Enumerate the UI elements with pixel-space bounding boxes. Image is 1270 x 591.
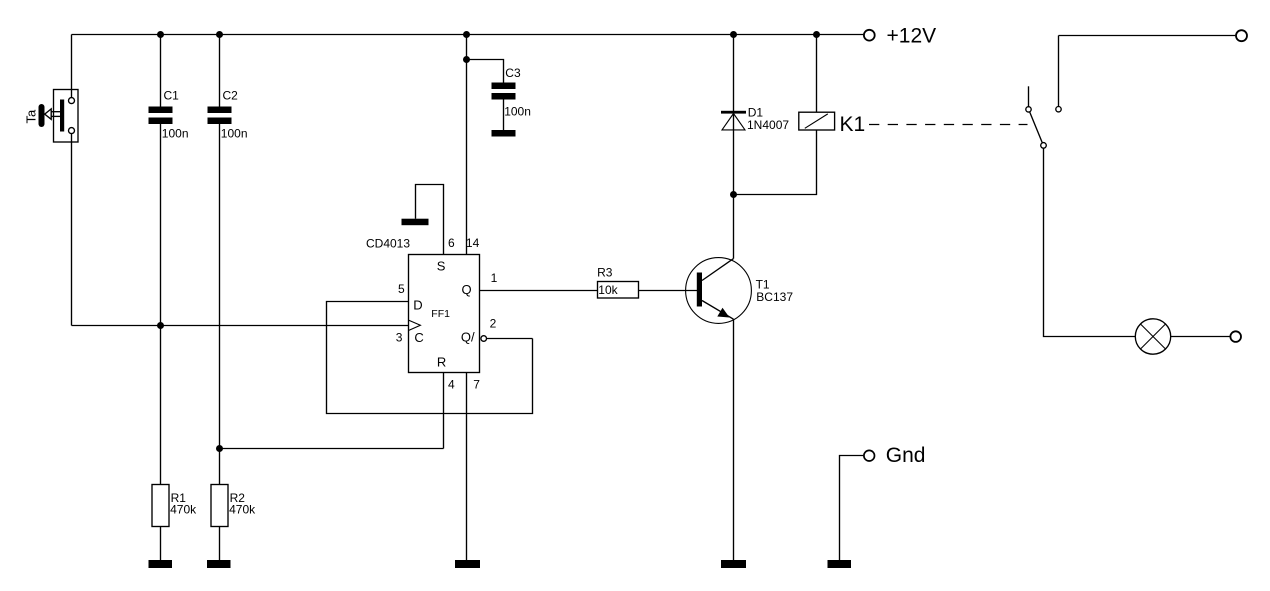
wire reset pin4 vertical (443, 373, 445, 449)
relay coil K1 (799, 112, 835, 130)
relay contact NO (1056, 107, 1061, 112)
svg-text:10k: 10k (598, 283, 618, 297)
wire C1 top (160, 35, 162, 107)
wire D1 top (733, 35, 735, 195)
svg-text:R: R (437, 355, 446, 370)
ground Gnd (828, 560, 852, 568)
lamp (1135, 319, 1170, 354)
transistor T1 (686, 258, 752, 324)
svg-text:+12V: +12V (887, 25, 937, 48)
pin2 bubble (481, 336, 487, 342)
resistor R3 (598, 282, 639, 299)
wire +12V top rail (72, 34, 864, 36)
relay contact NC stub (1028, 86, 1030, 106)
svg-text:K1: K1 (840, 113, 866, 136)
svg-text:CD4013: CD4013 (366, 236, 410, 250)
wire D feedback (327, 302, 533, 414)
wire reset pin4 horizontal (220, 448, 444, 450)
wire collector (733, 195, 735, 259)
relay contact NO wire (1058, 36, 1060, 107)
pushbutton Ta (39, 90, 79, 143)
svg-text:6: 6 (448, 236, 455, 250)
junction C2 rail (216, 31, 223, 38)
svg-text:Q: Q (462, 282, 472, 297)
terminal lamp right (1230, 331, 1241, 342)
wire lamp to terminal (1171, 336, 1230, 338)
svg-text:C3: C3 (505, 66, 521, 80)
svg-text:D: D (413, 297, 422, 312)
terminal top right (1236, 30, 1247, 41)
terminal +12V (864, 30, 875, 41)
svg-text:BC137: BC137 (756, 290, 793, 304)
wire C2 to R2 (219, 124, 221, 485)
junction C1 rail (157, 31, 164, 38)
wire emitter (733, 319, 735, 560)
svg-text:5: 5 (398, 282, 405, 296)
wire C2 top (219, 35, 221, 107)
wire Qbar to feedback (487, 338, 533, 340)
svg-text:7: 7 (473, 377, 480, 391)
resistor R2 (211, 485, 228, 527)
junction rail D1 (730, 31, 737, 38)
svg-text:1N4007: 1N4007 (747, 118, 789, 132)
svg-text:3: 3 (396, 331, 403, 345)
switch common contact (1041, 143, 1047, 149)
svg-text:470k: 470k (170, 503, 197, 517)
ground R2 (207, 560, 231, 568)
ground C3 (492, 130, 516, 137)
svg-text:100n: 100n (221, 126, 248, 140)
wire Q to R3 (480, 290, 598, 292)
wire Gnd (840, 456, 864, 561)
ground pin7 (455, 560, 480, 568)
wire relay bottom (734, 130, 817, 195)
relay contact NC (1026, 107, 1031, 112)
wire Ta top segment (71, 35, 73, 98)
wire R1 to ground (160, 527, 162, 561)
svg-text:S: S (437, 259, 446, 274)
diode D1 (721, 111, 746, 130)
wire switch top to terminal (1059, 35, 1236, 37)
junction clock C1 (157, 322, 164, 329)
clock triangle (409, 320, 421, 330)
wire C1 to R1 (160, 124, 162, 485)
capacitor C2 (208, 107, 232, 125)
svg-text:Ta: Ta (24, 109, 39, 124)
svg-text:1: 1 (491, 271, 498, 285)
svg-text:C1: C1 (164, 88, 180, 102)
svg-text:FF1: FF1 (431, 308, 450, 320)
ground pin6 (402, 219, 429, 226)
resistor R1 (152, 485, 169, 527)
junction C3 branch (463, 56, 470, 63)
terminal Gnd (864, 450, 875, 461)
ground R1 (149, 560, 173, 568)
svg-text:Gnd: Gnd (886, 444, 926, 467)
capacitor C1 (149, 107, 173, 125)
wire pin7 to ground (466, 373, 468, 561)
svg-text:100n: 100n (162, 126, 189, 140)
ground emitter (721, 560, 746, 568)
svg-text:Q/: Q/ (461, 329, 475, 344)
svg-text:14: 14 (466, 236, 480, 250)
switch arm (1030, 112, 1043, 143)
dashed link K1 to switch (869, 124, 1028, 126)
wire Ta bottom segment (71, 134, 73, 326)
svg-text:4: 4 (448, 377, 455, 391)
svg-text:2: 2 (490, 317, 497, 331)
junction collector relay (730, 191, 737, 198)
wire pin6 (416, 185, 444, 255)
wire R3 to base (639, 290, 698, 292)
svg-text:100n: 100n (504, 104, 531, 118)
svg-text:470k: 470k (229, 503, 256, 517)
junction reset R2 (216, 445, 223, 452)
svg-text:C: C (414, 330, 423, 345)
svg-text:C2: C2 (223, 88, 239, 102)
wire R2 to ground (219, 527, 221, 561)
wire pin14 vertical (466, 35, 468, 255)
wire common to lamp (1044, 148, 1136, 336)
wire relay top (816, 35, 818, 113)
capacitor C3 (492, 83, 516, 100)
flip-flop FF1 CD4013 body (409, 255, 480, 373)
wire clock Ta to pin C (72, 325, 409, 327)
wire C3 to ground (503, 100, 505, 131)
junction rail relay (813, 31, 820, 38)
junction rail pin14 (463, 31, 470, 38)
wire C3 branch (467, 60, 504, 83)
svg-text:R3: R3 (597, 265, 613, 279)
